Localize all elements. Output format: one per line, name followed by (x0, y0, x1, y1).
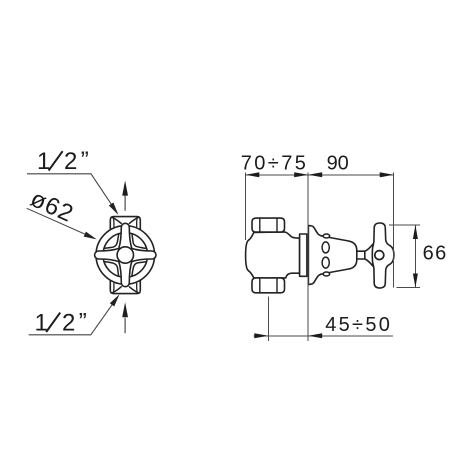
leader: bottom 1/2" (29, 297, 118, 335)
handle hub circle (side view) (375, 251, 384, 260)
66 extension lines (389, 224, 420, 226)
45÷50 left arrow (outside) (254, 333, 268, 338)
label top 1/2" (37, 147, 89, 175)
66 dimension line (414, 225, 416, 288)
svg-text:66: 66 (423, 243, 448, 265)
dimension arrowheads (245, 172, 418, 338)
bonnet decorative ellipses (323, 234, 330, 238)
svg-text:1: 1 (37, 148, 50, 175)
66 top arrow (413, 225, 418, 239)
leader: top 1/2" (27, 174, 117, 213)
valve body (246, 232, 300, 278)
quadrant windows (104, 234, 147, 277)
leader: ø62 (27, 208, 95, 238)
handle bar (side view) (372, 223, 394, 288)
extension line middle (x=308.2) (307, 172, 309, 341)
90 right arrow (380, 172, 394, 177)
dimension line 70÷75 / 90 (245, 174, 393, 176)
extension line pipe axis (x=268.3) (267, 297, 269, 342)
handle flare at stem (365, 244, 373, 266)
flow arrow top (122, 181, 128, 211)
70÷75 left arrow (245, 172, 259, 177)
svg-text:90: 90 (327, 152, 349, 174)
top hex nut (side view) (252, 218, 285, 232)
handle hub (117, 247, 133, 263)
stem (357, 251, 366, 259)
70÷75 right arrow + 90 left arrow (294, 172, 308, 177)
svg-text:45÷50: 45÷50 (325, 314, 392, 336)
svg-text:”: ” (79, 308, 87, 335)
svg-text:1: 1 (35, 310, 48, 337)
svg-text:70÷75: 70÷75 (241, 152, 308, 174)
escutcheon bell + bonnet cone (308, 226, 356, 285)
extension line right (x=393.7) (393, 172, 395, 287)
handle spokes (cross) (95, 248, 119, 261)
wall flange plate (300, 234, 307, 276)
top hex fitting (front view) (110, 217, 140, 232)
45÷50 right arrow (outside) (308, 333, 322, 338)
bottom hex nut (side view) (252, 278, 285, 293)
flow arrow bottom (122, 302, 128, 333)
label bottom 1/2" (35, 308, 87, 336)
handle outer circle (96, 226, 155, 285)
svg-text:2: 2 (62, 310, 75, 337)
handle inner rim circle (103, 233, 148, 278)
bottom hex fitting (front view) (110, 278, 140, 294)
extension line left (x=245.3) (244, 172, 246, 240)
66 bottom arrow (413, 274, 418, 288)
dimension line 45÷50 (254, 335, 393, 337)
svg-text:”: ” (81, 147, 89, 174)
svg-text:2: 2 (64, 148, 77, 175)
